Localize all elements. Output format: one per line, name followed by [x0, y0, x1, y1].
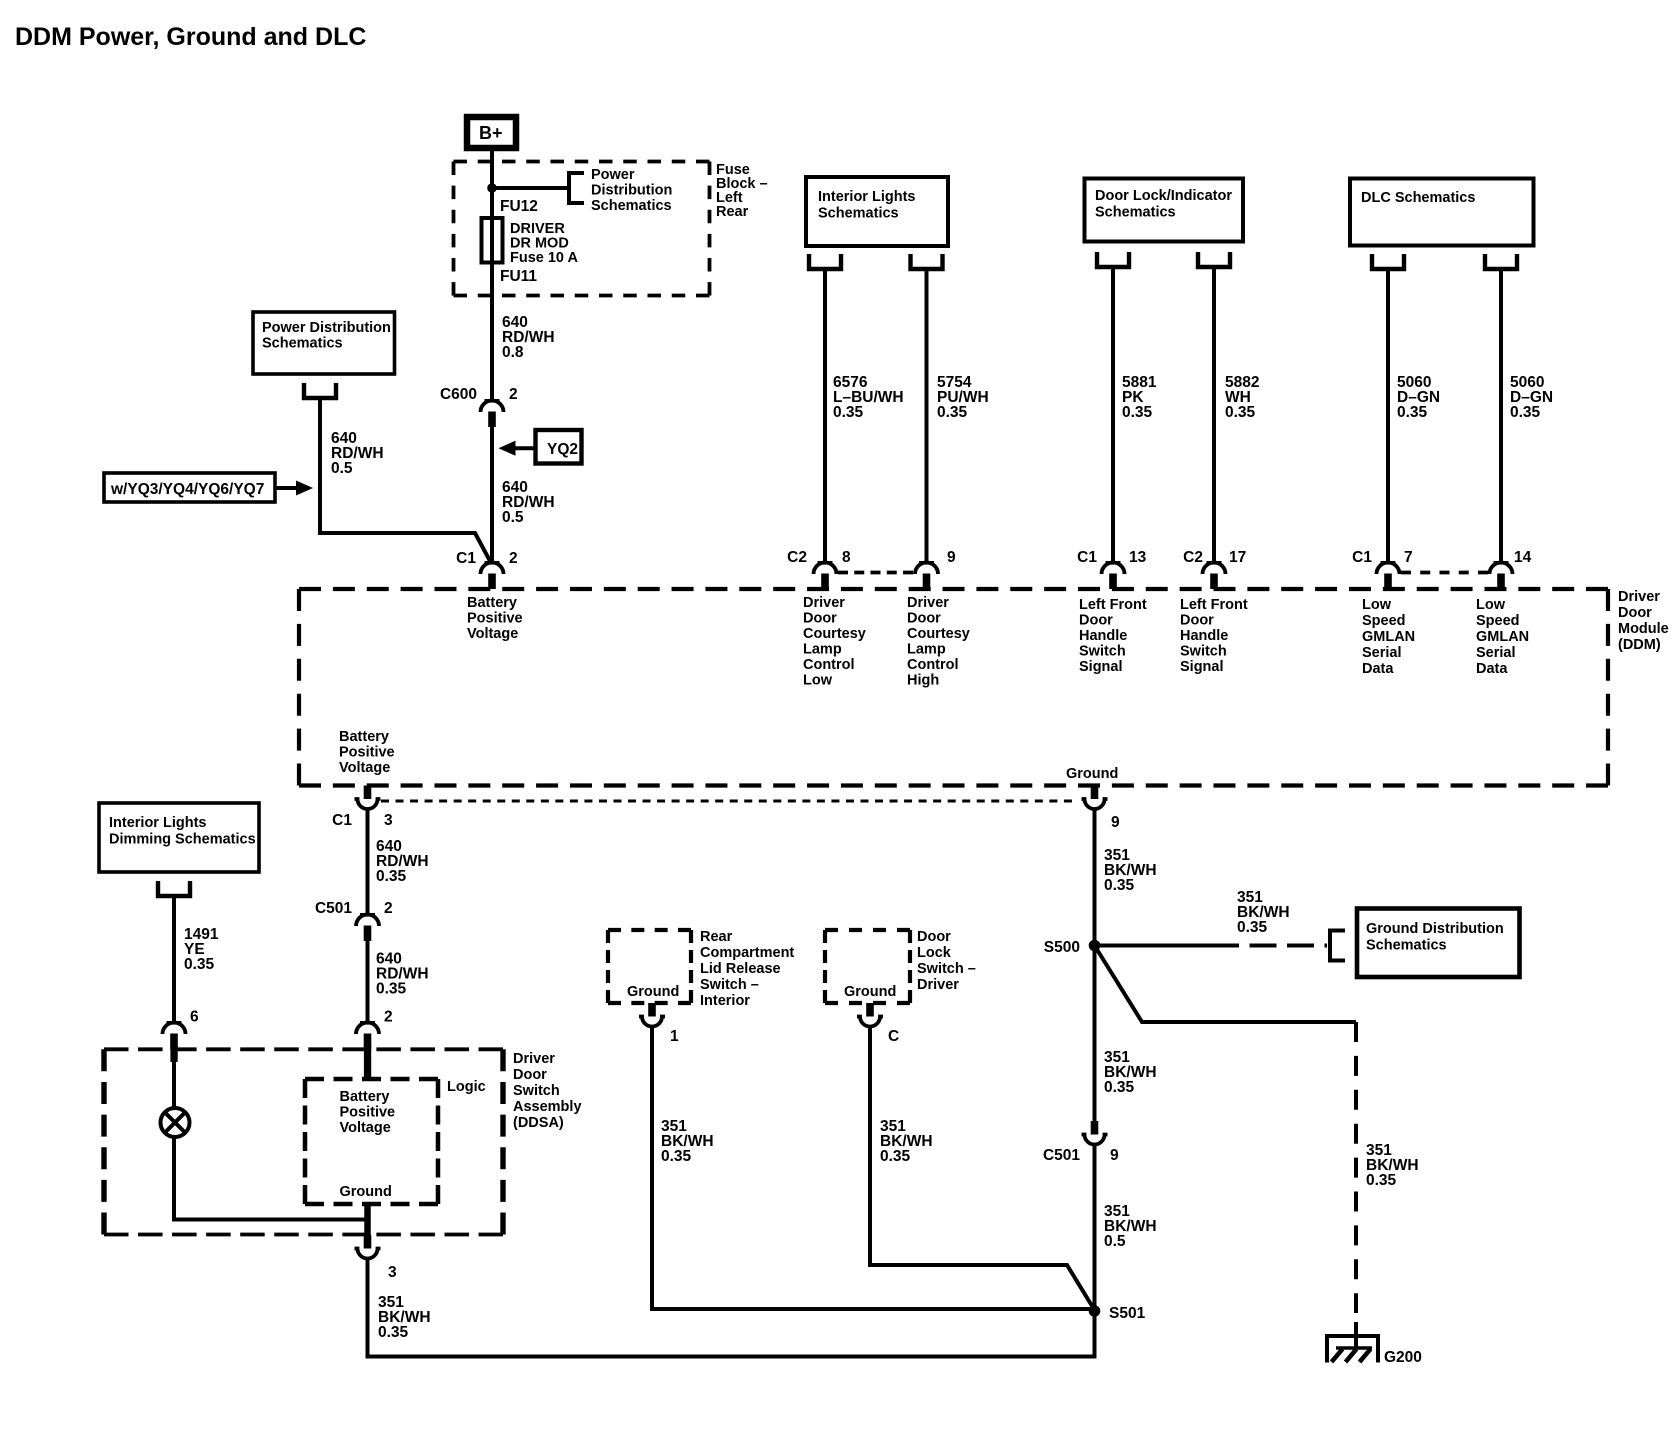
- svg-text:Door: Door: [1079, 613, 1113, 629]
- svg-text:7: 7: [1404, 549, 1413, 566]
- svg-text:Logic: Logic: [447, 1079, 486, 1095]
- svg-text:Door: Door: [513, 1067, 547, 1083]
- ground box Rear Compartment Lid Release Switch (dashed): [608, 930, 691, 1003]
- label wire 640 RD/WH 0.35 (lower): [376, 951, 429, 998]
- connector C1 pin 2 (DDM battery feed): [456, 550, 517, 589]
- svg-text:3: 3: [384, 812, 393, 829]
- lamp (dimming indicator): [161, 1108, 190, 1137]
- svg-text:17: 17: [1229, 549, 1246, 566]
- connector C2 pin 8: [787, 549, 851, 589]
- label wire 1491 YE 0.35: [184, 926, 219, 973]
- svg-text:C1: C1: [456, 550, 476, 567]
- option tag w/YQ3/YQ4/YQ6/YQ7 with arrow: [104, 473, 313, 502]
- svg-text:Door: Door: [803, 611, 837, 627]
- svg-text:Schematics: Schematics: [262, 336, 343, 352]
- svg-text:Ground Distribution: Ground Distribution: [1366, 921, 1504, 937]
- svg-text:2: 2: [384, 900, 393, 917]
- label Fuse Block - Left Rear: [716, 162, 768, 220]
- svg-text:8: 8: [842, 549, 851, 566]
- connector DDSA pin 3: [355, 1235, 398, 1281]
- svg-text:0.35: 0.35: [1366, 1172, 1397, 1189]
- svg-text:C600: C600: [440, 386, 477, 403]
- pin label Left Front Door Handle Switch Signal (13): [1079, 597, 1147, 675]
- svg-text:C501: C501: [1043, 1147, 1080, 1164]
- reference box Power Distribution Schematics (left): [253, 312, 395, 374]
- connector C1 pin 14: [1490, 549, 1532, 589]
- svg-text:Interior Lights: Interior Lights: [109, 815, 206, 831]
- wire C501 down to DDSA pin 2: [366, 941, 370, 1021]
- wire pin 1 down to S501: [652, 1027, 1095, 1310]
- svg-text:Switch: Switch: [1079, 644, 1126, 660]
- wire 5754: [925, 269, 929, 562]
- svg-text:Ground: Ground: [844, 984, 896, 1000]
- svg-text:9: 9: [1110, 1147, 1119, 1164]
- off-page bracket to Ground Distribution Schematics: [1330, 931, 1345, 961]
- wire C501-9 down to S501: [1093, 1145, 1097, 1312]
- connector C2 pin 17: [1183, 549, 1246, 589]
- svg-text:Positive: Positive: [340, 1105, 396, 1121]
- svg-text:S500: S500: [1044, 939, 1080, 956]
- svg-text:Power Distribution: Power Distribution: [262, 320, 391, 336]
- label wire 5882 WH 0.35: [1225, 374, 1259, 421]
- svg-text:0.35: 0.35: [376, 868, 407, 885]
- svg-text:Left Front: Left Front: [1079, 597, 1147, 613]
- svg-text:0.5: 0.5: [331, 460, 353, 477]
- svg-text:0.35: 0.35: [937, 404, 968, 421]
- connector line C1 (dotted pin 3 to pin 9): [381, 800, 1072, 803]
- svg-text:Voltage: Voltage: [467, 626, 518, 642]
- svg-text:Schematics: Schematics: [591, 198, 672, 214]
- svg-text:Door: Door: [917, 929, 951, 945]
- svg-text:Distribution: Distribution: [591, 183, 672, 199]
- svg-text:2: 2: [384, 1009, 393, 1026]
- connector C600 pin 2: [440, 386, 518, 427]
- svg-text:Driver: Driver: [907, 595, 949, 611]
- svg-text:Rear: Rear: [700, 929, 733, 945]
- reference box Interior Lights Schematics: [806, 177, 948, 246]
- svg-text:0.35: 0.35: [661, 1148, 692, 1165]
- svg-text:High: High: [907, 673, 939, 689]
- svg-text:Schematics: Schematics: [1366, 938, 1447, 954]
- svg-text:S501: S501: [1109, 1305, 1146, 1322]
- svg-text:Positive: Positive: [467, 611, 523, 627]
- svg-text:Positive: Positive: [339, 745, 395, 761]
- wire logic ground down through DDSA border: [364, 1202, 371, 1235]
- label wire 5060 D-GN 0.35 (left): [1397, 374, 1440, 421]
- wire DDM pin 9 down to S500: [1093, 809, 1097, 1121]
- svg-text:3: 3: [388, 1264, 397, 1281]
- label Rear Compartment Lid Release Switch - Interior: [700, 929, 794, 1009]
- svg-text:Handle: Handle: [1079, 628, 1127, 644]
- label wire 351 BK/WH 0.35 (ground upper): [1104, 847, 1157, 894]
- svg-text:Battery: Battery: [340, 1089, 390, 1105]
- connector C1 pin 7: [1352, 549, 1412, 589]
- label Driver Door Module (DDM): [1618, 589, 1669, 653]
- svg-text:0.35: 0.35: [378, 1324, 409, 1341]
- ground box Door Lock Switch - Driver (dashed): [825, 930, 910, 1003]
- svg-text:B+: B+: [479, 123, 503, 143]
- connector pin 1 (lid release ground): [639, 1003, 679, 1045]
- label wire 351 BK/WH 0.35 (to G200): [1366, 1142, 1419, 1189]
- connector pin C (door lock ground): [857, 1003, 899, 1045]
- connector line C2 (dashed pin 8 to 9): [838, 571, 913, 575]
- svg-text:0.8: 0.8: [502, 344, 524, 361]
- label wire 5754 PU/WH 0.35: [937, 374, 989, 421]
- wire S500 diagonal to G200 drop: [1095, 946, 1357, 1023]
- svg-text:2: 2: [509, 550, 518, 567]
- wire C600 to C1: [490, 427, 494, 562]
- connector C1 pin 3 (DDM out): [332, 786, 393, 830]
- svg-text:Battery: Battery: [467, 595, 517, 611]
- connector stub below Power Distribution box: [304, 383, 336, 398]
- svg-text:Driver: Driver: [917, 977, 959, 993]
- svg-text:0.35: 0.35: [1104, 877, 1135, 894]
- label wire 351 BK/WH 0.5 (C501 to S501): [1104, 1203, 1157, 1250]
- wire DDSA pin 2 into logic box (male pin through border): [364, 1045, 371, 1081]
- svg-text:Door Lock/Indicator: Door Lock/Indicator: [1095, 188, 1232, 204]
- ground G200: [1327, 1336, 1422, 1366]
- svg-text:13: 13: [1129, 549, 1147, 566]
- svg-text:Lock: Lock: [917, 945, 952, 961]
- svg-text:Switch –: Switch –: [917, 961, 976, 977]
- svg-text:Speed: Speed: [1476, 613, 1520, 629]
- svg-text:Switch: Switch: [513, 1083, 560, 1099]
- svg-text:Serial: Serial: [1476, 645, 1516, 661]
- label Power Distribution Schematics (fuse block): [591, 167, 672, 214]
- svg-text:GMLAN: GMLAN: [1476, 629, 1529, 645]
- connector stub (Door Lock right): [1198, 252, 1230, 267]
- connector stub (DLC right): [1485, 254, 1517, 269]
- svg-text:Rear: Rear: [716, 204, 749, 220]
- connector stub (Interior Lights right): [911, 254, 943, 269]
- label wire 351 BK/WH 0.35 (to ground dist): [1237, 889, 1290, 936]
- wire 5060 (pin 14): [1499, 269, 1503, 562]
- power symbol B+: [467, 117, 516, 148]
- wire S500 to Ground Distribution Schematics (part dashed): [1095, 944, 1213, 948]
- svg-text:Low: Low: [1362, 597, 1392, 613]
- fuse FU11 DRIVER DR MOD Fuse 10 A: [482, 218, 579, 266]
- svg-text:Courtesy: Courtesy: [907, 626, 970, 642]
- svg-text:Left Front: Left Front: [1180, 597, 1248, 613]
- connector DDSA pin 2: [356, 1009, 393, 1050]
- svg-text:Lamp: Lamp: [907, 642, 946, 658]
- svg-text:Data: Data: [1362, 661, 1394, 677]
- svg-text:Voltage: Voltage: [340, 1120, 391, 1136]
- label wire 351 BK/WH 0.35 (door lock): [880, 1118, 933, 1165]
- wire B+ down to C600: [490, 148, 494, 400]
- svg-text:GMLAN: GMLAN: [1362, 629, 1415, 645]
- svg-text:9: 9: [947, 549, 956, 566]
- svg-text:Door: Door: [1180, 613, 1214, 629]
- svg-text:Signal: Signal: [1079, 659, 1123, 675]
- connector stub (Interior Lights left): [809, 254, 841, 269]
- pin label Low Speed GMLAN Serial Data (14): [1476, 597, 1529, 677]
- svg-text:C1: C1: [332, 812, 352, 829]
- svg-text:DDM Power, Ground and DLC: DDM Power, Ground and DLC: [15, 23, 366, 51]
- wire left branch corner to C1 pin 2: [320, 533, 490, 561]
- wire 5882: [1212, 267, 1216, 562]
- label wire 640 RD/WH 0.5 (left branch): [331, 430, 384, 477]
- label Driver Door Switch Assembly (DDSA): [513, 1051, 582, 1131]
- svg-text:Speed: Speed: [1362, 613, 1406, 629]
- svg-text:6: 6: [190, 1009, 199, 1026]
- svg-text:G200: G200: [1384, 1349, 1422, 1366]
- svg-text:C1: C1: [1352, 549, 1372, 566]
- svg-text:Driver: Driver: [803, 595, 845, 611]
- connector stub (DLC left): [1372, 254, 1404, 269]
- splice S500: [1044, 939, 1101, 956]
- label wire 351 BK/WH 0.35 (lid release): [661, 1118, 714, 1165]
- pin label Battery Positive Voltage (C1-2): [467, 595, 523, 642]
- connector stub below Dimming box: [158, 881, 190, 896]
- label wire 640 RD/WH 0.8: [502, 314, 555, 361]
- wire 5881: [1111, 267, 1115, 562]
- reference box DLC Schematics: [1350, 179, 1534, 246]
- svg-text:Door: Door: [1618, 605, 1652, 621]
- connector C501 pin 2: [315, 900, 393, 941]
- svg-text:Module: Module: [1618, 621, 1669, 637]
- svg-text:C1: C1: [1077, 549, 1097, 566]
- wire Power Distribution stub down: [318, 398, 322, 535]
- svg-text:0.35: 0.35: [184, 956, 215, 973]
- connector DDSA pin 6: [163, 1009, 200, 1050]
- svg-text:0.35: 0.35: [1225, 404, 1256, 421]
- svg-text:Control: Control: [907, 657, 959, 673]
- label wire 351 BK/WH 0.35 (S500 to C501): [1104, 1049, 1157, 1096]
- wire pin C down to S501: [870, 1027, 1095, 1311]
- module box Driver Door Module (DDM) dashed: [299, 589, 1608, 786]
- wire 6576: [823, 269, 827, 562]
- svg-text:Low: Low: [1476, 597, 1506, 613]
- svg-text:Assembly: Assembly: [513, 1099, 582, 1115]
- label wire 640 RD/WH 0.35 (upper): [376, 838, 429, 885]
- wire C1-3 down to C501: [366, 809, 370, 913]
- svg-text:2: 2: [509, 386, 518, 403]
- label wire 5060 D-GN 0.35 (right): [1510, 374, 1553, 421]
- label Battery Positive Voltage (logic in): [340, 1089, 396, 1136]
- svg-text:Low: Low: [803, 673, 833, 689]
- svg-text:Ground: Ground: [340, 1184, 392, 1200]
- off-page bracket to Power Distribution Schematics: [569, 173, 584, 203]
- svg-text:1: 1: [670, 1028, 679, 1045]
- svg-text:(DDSA): (DDSA): [513, 1115, 564, 1131]
- svg-text:(DDM): (DDM): [1618, 637, 1661, 653]
- pin label Low Speed GMLAN Serial Data (7): [1362, 597, 1415, 677]
- svg-text:Control: Control: [803, 657, 855, 673]
- connector line C1 (dashed pin 7 to 14): [1401, 571, 1488, 575]
- reference box Interior Lights Dimming Schematics: [99, 803, 259, 872]
- svg-text:Ground: Ground: [1066, 766, 1118, 782]
- wire lamp to ground run: [174, 1137, 368, 1220]
- svg-text:Schematics: Schematics: [1095, 205, 1176, 221]
- svg-text:DLC Schematics: DLC Schematics: [1361, 190, 1475, 206]
- svg-text:Voltage: Voltage: [339, 760, 390, 776]
- svg-text:Fuse 10 A: Fuse 10 A: [510, 250, 578, 266]
- svg-text:Signal: Signal: [1180, 659, 1224, 675]
- wire DDSA pin 3 down to splice run: [368, 1259, 1095, 1357]
- label wire 351 BK/WH 0.35 (DDSA): [378, 1294, 431, 1341]
- svg-text:Battery: Battery: [339, 729, 389, 745]
- svg-text:0.35: 0.35: [376, 981, 407, 998]
- svg-text:Handle: Handle: [1180, 628, 1228, 644]
- svg-text:Lid Release: Lid Release: [700, 961, 781, 977]
- svg-text:0.35: 0.35: [1397, 404, 1428, 421]
- svg-text:0.35: 0.35: [1237, 919, 1268, 936]
- svg-text:w/YQ3/YQ4/YQ6/YQ7: w/YQ3/YQ4/YQ6/YQ7: [110, 481, 264, 498]
- svg-text:0.35: 0.35: [880, 1148, 911, 1165]
- pin label Left Front Door Handle Switch Signal (17): [1180, 597, 1248, 675]
- pin label Driver Door Courtesy Lamp Control High: [907, 595, 970, 689]
- svg-text:Courtesy: Courtesy: [803, 626, 866, 642]
- label Door Lock Switch - Driver: [917, 929, 976, 993]
- svg-text:C501: C501: [315, 900, 352, 917]
- svg-text:C2: C2: [787, 549, 807, 566]
- svg-text:Ground: Ground: [627, 984, 679, 1000]
- svg-text:FU11: FU11: [500, 268, 537, 285]
- connector C2 pin 9: [915, 549, 956, 589]
- svg-text:0.5: 0.5: [502, 509, 524, 526]
- connector stub (Door Lock left): [1097, 252, 1129, 267]
- svg-text:Data: Data: [1476, 661, 1508, 677]
- label wire 5881 PK 0.35: [1122, 374, 1157, 421]
- wire DDSA pin 6 to lamp (male pin through border): [170, 1045, 177, 1062]
- wire dashed drop to G200: [1354, 1022, 1358, 1313]
- svg-text:Switch: Switch: [1180, 644, 1227, 660]
- svg-text:Dimming Schematics: Dimming Schematics: [109, 832, 256, 848]
- wire junction to Power Distribution bracket: [492, 186, 567, 190]
- svg-text:9: 9: [1111, 814, 1120, 831]
- pin label Battery Positive Voltage (C1-3 out): [339, 729, 395, 776]
- svg-text:Schematics: Schematics: [818, 206, 899, 222]
- svg-text:Driver: Driver: [513, 1051, 555, 1067]
- splice S501: [1089, 1305, 1146, 1322]
- logic box (dashed) inside DDSA: [305, 1079, 438, 1204]
- svg-text:0.35: 0.35: [833, 404, 864, 421]
- svg-text:0.35: 0.35: [1104, 1079, 1135, 1096]
- svg-text:Door: Door: [907, 611, 941, 627]
- svg-text:C: C: [888, 1028, 899, 1045]
- svg-text:Interior Lights: Interior Lights: [818, 189, 915, 205]
- wire 1491 down: [172, 896, 176, 1021]
- svg-text:Interior: Interior: [700, 993, 750, 1009]
- label wire 6576 L-BU/WH 0.35: [833, 374, 904, 421]
- svg-text:14: 14: [1514, 549, 1532, 566]
- svg-text:Lamp: Lamp: [803, 642, 842, 658]
- reference box Door Lock/Indicator Schematics: [1085, 179, 1244, 242]
- option tag YQ2 with arrow: [499, 430, 582, 464]
- node: junction in fuse block: [487, 183, 497, 193]
- svg-text:Switch –: Switch –: [700, 977, 759, 993]
- svg-text:0.5: 0.5: [1104, 1233, 1126, 1250]
- fuse block dashed box: [454, 162, 710, 296]
- reference box Ground Distribution Schematics: [1357, 909, 1520, 978]
- svg-text:YQ2: YQ2: [547, 441, 578, 458]
- svg-text:Driver: Driver: [1618, 589, 1660, 605]
- svg-text:Compartment: Compartment: [700, 945, 794, 961]
- svg-text:C2: C2: [1183, 549, 1203, 566]
- svg-text:0.35: 0.35: [1122, 404, 1153, 421]
- connector C1 pin 13: [1077, 549, 1146, 589]
- svg-text:0.35: 0.35: [1510, 404, 1541, 421]
- pin label Driver Door Courtesy Lamp Control Low: [803, 595, 866, 689]
- connector C501 pin 9: [1043, 1121, 1119, 1164]
- connector pin 9 (DDM ground out): [1082, 786, 1121, 832]
- svg-text:FU12: FU12: [500, 198, 538, 215]
- wire 5060 (pin 7): [1386, 269, 1390, 562]
- svg-text:Serial: Serial: [1362, 645, 1402, 661]
- label wire 640 RD/WH 0.5: [502, 479, 555, 526]
- svg-text:Power: Power: [591, 167, 635, 183]
- module box Driver Door Switch Assembly (DDSA) dashed: [104, 1049, 503, 1234]
